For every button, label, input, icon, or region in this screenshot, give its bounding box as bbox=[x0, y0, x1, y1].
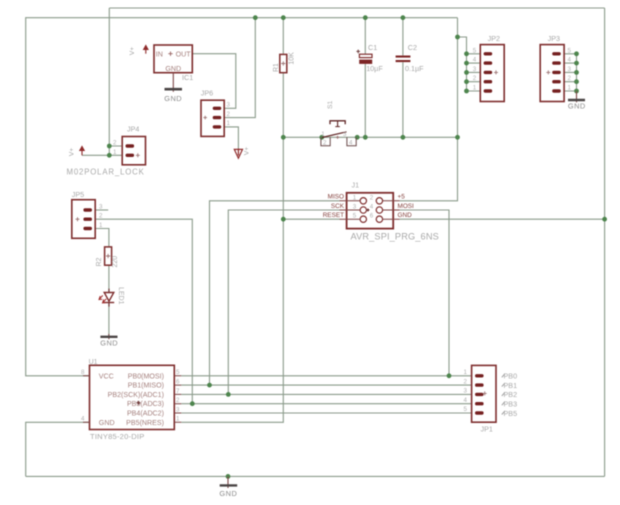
svg-text:PB3: PB3 bbox=[504, 400, 518, 409]
svg-text:GND: GND bbox=[398, 212, 413, 219]
svg-text:3: 3 bbox=[99, 204, 103, 211]
wire GND bottom rail bbox=[26, 475, 605, 477]
svg-text:2: 2 bbox=[464, 378, 468, 385]
svg-text:PB5(NRES): PB5(NRES) bbox=[126, 419, 164, 427]
wire tick marks at JP1 net labels bbox=[502, 374, 505, 415]
svg-text:6: 6 bbox=[370, 213, 374, 220]
wire MOSI J1 to U1 PB0 bbox=[400, 210, 449, 376]
svg-text:PB5: PB5 bbox=[504, 409, 518, 418]
connector JP3 bbox=[540, 45, 564, 102]
wire JP4 pin stubs bbox=[109, 146, 122, 155]
wire JP2 feed bbox=[458, 37, 467, 91]
svg-text:VCC: VCC bbox=[99, 372, 114, 380]
LED1 bbox=[99, 289, 114, 307]
svg-text:5: 5 bbox=[353, 213, 357, 220]
svg-text:JP3: JP3 bbox=[548, 34, 560, 43]
wire JP3 pin stubs and vertical bbox=[564, 54, 576, 91]
wire MISO J1 to U1 PB1 bbox=[210, 201, 340, 385]
wire PB4 row bbox=[181, 412, 471, 414]
connector JP4 bbox=[122, 137, 145, 165]
svg-text:OUT: OUT bbox=[176, 50, 192, 58]
ground under JP3 bbox=[568, 91, 586, 110]
svg-text:1: 1 bbox=[113, 149, 117, 156]
wire GND right rail bbox=[604, 8, 606, 476]
svg-text:4: 4 bbox=[464, 397, 468, 404]
svg-text:5: 5 bbox=[473, 47, 477, 54]
wire C2 vertical bbox=[402, 18, 404, 138]
svg-text:SCK: SCK bbox=[331, 203, 345, 210]
svg-text:2: 2 bbox=[113, 140, 117, 147]
junction dot JP2 feed bbox=[455, 35, 460, 40]
svg-text:4: 4 bbox=[349, 140, 353, 147]
svg-text:MOSI: MOSI bbox=[398, 203, 415, 210]
svg-text:1: 1 bbox=[99, 222, 103, 229]
svg-text:3: 3 bbox=[353, 204, 357, 211]
svg-text:3: 3 bbox=[568, 66, 572, 73]
svg-text:2: 2 bbox=[473, 75, 477, 82]
wire RESET J1 to vertical bbox=[283, 218, 339, 220]
svg-text:10K: 10K bbox=[289, 52, 296, 65]
wire +5 vertical down to J1 pin2 bbox=[400, 18, 458, 201]
wire GND J1 pin6 to right rail bbox=[400, 218, 605, 220]
resistor R2 bbox=[105, 247, 112, 265]
connector JP1 bbox=[472, 365, 496, 422]
svg-text:JP1: JP1 bbox=[481, 425, 493, 434]
svg-text:JP5: JP5 bbox=[72, 190, 84, 199]
wire C1 vertical bbox=[364, 18, 366, 138]
svg-text:IC1: IC1 bbox=[182, 73, 193, 82]
wire GND top rail bbox=[109, 7, 604, 9]
svg-text:PB2: PB2 bbox=[504, 390, 518, 399]
microcontroller U1 TINY85 bbox=[83, 365, 181, 429]
svg-text:R1: R1 bbox=[273, 63, 280, 72]
junction dots switch row bbox=[281, 135, 460, 140]
junction dots VCC rail bbox=[253, 15, 405, 20]
wire PB2 row bbox=[181, 393, 471, 395]
svg-text:GND: GND bbox=[100, 339, 118, 348]
svg-text:+5: +5 bbox=[398, 194, 406, 201]
svg-text:4: 4 bbox=[473, 57, 477, 64]
svg-text:PB2(SCK)(ADC1): PB2(SCK)(ADC1) bbox=[108, 391, 164, 399]
svg-text:4: 4 bbox=[568, 57, 572, 64]
connector JP2 bbox=[480, 45, 504, 102]
svg-text:1: 1 bbox=[176, 416, 180, 423]
svg-text:J1: J1 bbox=[352, 181, 360, 190]
svg-text:C1: C1 bbox=[368, 43, 377, 52]
junction dots JP4 pins bbox=[107, 144, 112, 149]
svg-text:3: 3 bbox=[473, 66, 477, 73]
svg-text:GND: GND bbox=[219, 489, 237, 498]
svg-text:1: 1 bbox=[353, 194, 357, 201]
ground bottom center bbox=[219, 476, 237, 498]
svg-text:4: 4 bbox=[370, 204, 374, 211]
wire PB1 row bbox=[181, 384, 471, 386]
voltage regulator IC1 bbox=[154, 45, 192, 73]
wire JP6 pin2 to VCC rail bbox=[224, 18, 255, 118]
wire SCK J1 to U1 PB2 bbox=[228, 210, 339, 394]
svg-text:PB0(MOSI): PB0(MOSI) bbox=[128, 372, 164, 380]
wire switch row bbox=[283, 136, 457, 138]
svg-text:3: 3 bbox=[176, 406, 180, 413]
svg-text:1: 1 bbox=[321, 131, 325, 138]
svg-text:8: 8 bbox=[81, 369, 85, 376]
supply V+ at IC1 input bbox=[129, 44, 149, 55]
svg-text:1: 1 bbox=[568, 85, 572, 92]
svg-text:V+: V+ bbox=[244, 147, 251, 156]
svg-text:GND: GND bbox=[568, 101, 586, 110]
supply V+ at JP4 bbox=[69, 145, 86, 156]
svg-text:V+: V+ bbox=[129, 47, 136, 56]
wire PB3 row bbox=[181, 403, 471, 405]
supply V+ below JP6 (mirrored) bbox=[234, 147, 250, 158]
svg-text:1: 1 bbox=[464, 369, 468, 376]
svg-text:GND: GND bbox=[165, 65, 181, 73]
svg-text:3: 3 bbox=[464, 388, 468, 395]
svg-text:PB1: PB1 bbox=[504, 381, 518, 390]
junction dot bottom GND bbox=[226, 474, 231, 479]
svg-text:MISO: MISO bbox=[328, 194, 344, 201]
svg-text:2: 2 bbox=[99, 213, 103, 220]
svg-text:5: 5 bbox=[568, 47, 572, 54]
wire U1 GND pin4 to left rail bbox=[26, 422, 90, 476]
svg-text:7: 7 bbox=[176, 388, 180, 395]
junction dot RESET bbox=[281, 217, 286, 222]
svg-text:4: 4 bbox=[81, 416, 85, 423]
svg-text:TINY85-20-DIP: TINY85-20-DIP bbox=[90, 432, 145, 441]
svg-text:PB3(ADC3): PB3(ADC3) bbox=[127, 400, 164, 408]
wire JP5 pin1 to R2 LED chain bbox=[95, 229, 109, 336]
wire IC1 OUT to JP6 pin3 bbox=[192, 54, 236, 109]
wire JP6 pin1 to V+ bbox=[224, 127, 238, 149]
junction dot MISO PB1 bbox=[207, 383, 212, 388]
svg-text:2: 2 bbox=[568, 75, 572, 82]
svg-text:2: 2 bbox=[370, 194, 374, 201]
svg-text:PB4(ADC2): PB4(ADC2) bbox=[127, 410, 164, 418]
svg-text:6: 6 bbox=[176, 379, 180, 386]
svg-text:10µF: 10µF bbox=[366, 64, 383, 73]
svg-text:AVR_SPI_PRG_6NS: AVR_SPI_PRG_6NS bbox=[351, 232, 439, 242]
capacitor C1 bbox=[356, 50, 372, 64]
wire JP5 pin3 stub bbox=[95, 209, 108, 211]
svg-text:5: 5 bbox=[464, 406, 468, 413]
connector JP5 bbox=[72, 200, 95, 239]
svg-text:GND: GND bbox=[164, 94, 182, 103]
svg-text:1: 1 bbox=[227, 120, 231, 127]
junction dot SCK PB2 bbox=[226, 392, 231, 397]
junction dots JP2 pins bbox=[464, 51, 469, 93]
switch S1 bbox=[321, 121, 356, 146]
wire PB0 row bbox=[181, 375, 471, 377]
svg-text:PB0: PB0 bbox=[504, 372, 518, 381]
svg-text:S1: S1 bbox=[327, 100, 334, 109]
wire JP4 vertical from top rail bbox=[108, 8, 110, 155]
svg-text:LED1: LED1 bbox=[117, 287, 124, 305]
wire V+ to JP4 pin1 bbox=[82, 154, 109, 156]
svg-text:3: 3 bbox=[343, 131, 347, 138]
junction dots JP3 pins bbox=[574, 51, 579, 93]
svg-text:5: 5 bbox=[176, 369, 180, 376]
svg-text:RESET: RESET bbox=[323, 212, 344, 219]
svg-text:IN: IN bbox=[156, 50, 163, 58]
junction dot MOSI PB0 bbox=[447, 373, 452, 378]
svg-text:0.1µF: 0.1µF bbox=[405, 64, 424, 73]
svg-text:GND: GND bbox=[99, 419, 115, 427]
svg-text:220: 220 bbox=[112, 256, 119, 268]
svg-text:2: 2 bbox=[176, 397, 180, 404]
svg-text:1: 1 bbox=[473, 85, 477, 92]
svg-text:2: 2 bbox=[323, 140, 327, 147]
wire JP2 pin stubs bbox=[467, 54, 481, 91]
connector JP6 bbox=[201, 100, 224, 136]
svg-text:PB1(MISO): PB1(MISO) bbox=[128, 382, 164, 390]
svg-text:JP2: JP2 bbox=[488, 34, 500, 43]
junction dot GND right rail bbox=[602, 217, 607, 222]
svg-text:M02POLAR_LOCK: M02POLAR_LOCK bbox=[67, 168, 145, 177]
ISP header J1 bbox=[340, 193, 400, 229]
svg-text:R2: R2 bbox=[96, 257, 103, 266]
svg-text:U1: U1 bbox=[89, 359, 98, 366]
ground under LED1 bbox=[100, 334, 118, 348]
svg-text:V+: V+ bbox=[69, 148, 76, 157]
capacitor C2 bbox=[396, 56, 411, 63]
svg-text:3: 3 bbox=[227, 102, 231, 109]
wire RESET net vertical through R1 bbox=[181, 18, 283, 423]
svg-text:JP6: JP6 bbox=[201, 89, 213, 98]
svg-text:2: 2 bbox=[227, 111, 231, 118]
svg-text:JP4: JP4 bbox=[127, 125, 139, 134]
ground under IC1 bbox=[164, 73, 182, 103]
junction dot JP5 PB3 bbox=[190, 401, 195, 406]
wire JP5 pin2 to U1 PB3 bbox=[95, 219, 192, 404]
wire VCC rail from U1 VCC pin8 up and across top bbox=[26, 18, 458, 376]
svg-text:C2: C2 bbox=[408, 43, 417, 52]
resistor R1 bbox=[280, 54, 287, 72]
